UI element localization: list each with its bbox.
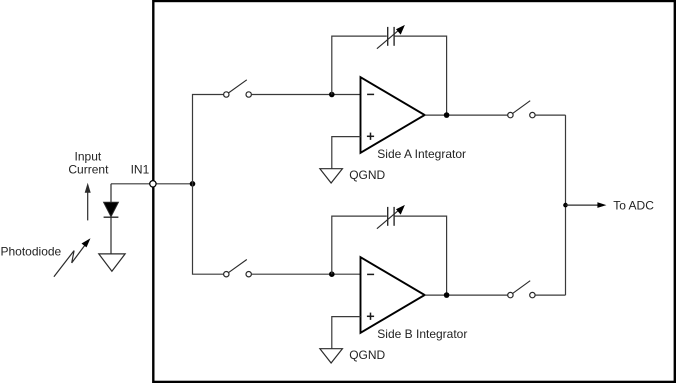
wire S1 to op-amp U1 inverting input bbox=[251, 94, 360, 96]
op-amp U1 plus sign bbox=[367, 135, 374, 137]
svg-text:To ADC: To ADC bbox=[613, 199, 654, 213]
input current arrow bbox=[85, 183, 91, 221]
capacitor C2 variable arrow bbox=[377, 208, 401, 229]
wire output bus vertical bbox=[565, 115, 567, 295]
wire side A feedback top/right down to output bbox=[395, 36, 447, 115]
capacitor C1 variable arrow bbox=[377, 28, 401, 49]
capacitor C1 (variable, side A) plates bbox=[387, 27, 389, 46]
capacitor C2 (variable, side B) plates bbox=[387, 207, 389, 226]
wire U2 noninverting input to QGND B bbox=[332, 317, 361, 349]
label Input Current bbox=[68, 150, 109, 177]
wire photodiode to pin IN1 and node bbox=[111, 183, 193, 185]
op-amp U1 (Side A) bbox=[361, 77, 425, 153]
node side B output junction bbox=[444, 292, 450, 298]
pin IN1 terminal bbox=[150, 181, 156, 187]
wire IN1 node to side B switch bbox=[193, 184, 227, 274]
ground QGND A bbox=[320, 169, 343, 183]
wire U1 output to switch S2 bbox=[425, 114, 511, 116]
switch S4 contact circles bbox=[508, 292, 513, 297]
photodiode D1 bbox=[104, 184, 119, 254]
ground QGND B bbox=[320, 349, 343, 363]
switch S2 contact circles bbox=[508, 112, 513, 117]
device boundary box bbox=[153, 1, 675, 382]
wire side B feedback top/right down to output bbox=[395, 216, 447, 295]
switch S1 (side A input) blade bbox=[226, 80, 247, 95]
node IN1 junction bbox=[190, 181, 196, 187]
switch S4 (side B output) blade bbox=[510, 281, 530, 295]
op-amp U2 (Side B) bbox=[361, 257, 425, 333]
node side A output junction bbox=[444, 112, 450, 118]
wire U2 output to switch S4 bbox=[425, 294, 511, 296]
svg-text:QGND: QGND bbox=[349, 168, 385, 182]
wire S4 to output bus bbox=[535, 294, 565, 296]
wire/arrow to ADC bbox=[566, 204, 600, 206]
switch S3 contact circles bbox=[224, 272, 229, 277]
node ADC tap junction bbox=[563, 203, 568, 208]
op-amp U2 minus sign bbox=[367, 273, 374, 275]
wire S3 to op-amp U2 inverting input bbox=[251, 273, 360, 275]
photodiode ground bbox=[99, 254, 125, 271]
svg-text:QGND: QGND bbox=[349, 348, 385, 362]
op-amp U1 minus sign bbox=[367, 93, 374, 95]
svg-text:Current: Current bbox=[68, 163, 109, 177]
op-amp U2 plus sign bbox=[367, 315, 374, 317]
svg-text:IN1: IN1 bbox=[131, 162, 150, 176]
wire side A feedback left/top bbox=[332, 36, 387, 94]
photodiode pointer arrow bbox=[54, 238, 91, 276]
node side A summing junction bbox=[329, 92, 335, 98]
switch S3 (side B input) blade bbox=[226, 260, 247, 275]
switch S2 (side A output) blade bbox=[510, 101, 530, 115]
svg-text:Side A Integrator: Side A Integrator bbox=[377, 147, 466, 161]
wire S2 to output bus bbox=[535, 114, 565, 116]
wire IN1 node to side A switch bbox=[193, 95, 227, 184]
wire U1 noninverting input to QGND A bbox=[332, 137, 361, 169]
switch S1 contact circles bbox=[224, 92, 229, 97]
svg-text:Side B Integrator: Side B Integrator bbox=[377, 327, 467, 341]
wire side B feedback left/top bbox=[332, 216, 387, 274]
svg-text:Input: Input bbox=[75, 150, 102, 164]
node side B summing junction bbox=[329, 271, 335, 277]
svg-text:Photodiode: Photodiode bbox=[1, 244, 62, 258]
